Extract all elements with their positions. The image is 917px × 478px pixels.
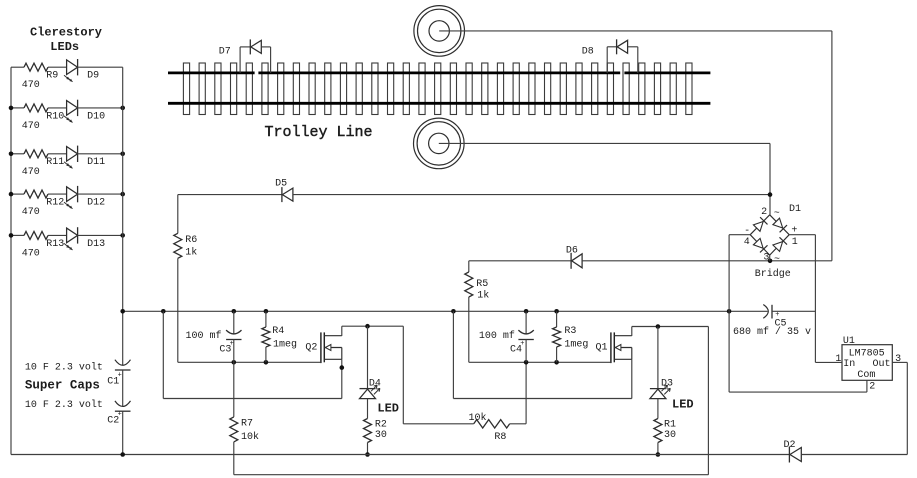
svg-text:1k: 1k	[185, 246, 197, 258]
svg-text:R9: R9	[46, 71, 58, 82]
svg-text:Out: Out	[873, 359, 891, 370]
svg-text:Super Caps: Super Caps	[25, 379, 100, 393]
svg-text:LEDs: LEDs	[50, 40, 79, 54]
svg-text:D3: D3	[661, 378, 673, 389]
svg-text:R4: R4	[272, 326, 284, 337]
svg-text:1: 1	[792, 237, 798, 248]
svg-text:U1: U1	[843, 336, 855, 347]
svg-text:470: 470	[22, 80, 40, 91]
svg-text:+: +	[230, 340, 234, 348]
svg-text:1: 1	[835, 354, 841, 365]
svg-text:470: 470	[22, 248, 40, 259]
svg-text:680 mf / 35 v: 680 mf / 35 v	[733, 326, 811, 338]
svg-text:R12: R12	[46, 198, 64, 209]
svg-text:R13: R13	[46, 239, 64, 250]
svg-text:Q1: Q1	[596, 342, 608, 353]
svg-text:R6: R6	[185, 235, 197, 246]
svg-text:R7: R7	[241, 419, 253, 430]
svg-text:30: 30	[664, 430, 676, 441]
svg-text:30: 30	[375, 430, 387, 441]
svg-text:~: ~	[774, 209, 780, 220]
svg-text:R2: R2	[375, 420, 387, 431]
svg-text:2: 2	[761, 207, 767, 218]
svg-text:+: +	[520, 340, 524, 348]
svg-text:10 F 2.3 volt: 10 F 2.3 volt	[25, 399, 103, 411]
svg-text:1meg: 1meg	[273, 340, 297, 351]
svg-text:R8: R8	[494, 432, 506, 443]
svg-text:4: 4	[744, 237, 750, 248]
svg-text:D8: D8	[582, 47, 594, 58]
svg-text:D13: D13	[87, 239, 105, 250]
svg-text:D10: D10	[87, 111, 105, 122]
svg-text:LM7805: LM7805	[849, 348, 885, 359]
svg-text:100 mf: 100 mf	[479, 330, 515, 342]
svg-text:In: In	[843, 359, 855, 370]
svg-text:D2: D2	[784, 440, 796, 451]
svg-text:470: 470	[22, 167, 40, 178]
svg-text:D4: D4	[369, 378, 381, 389]
svg-text:R3: R3	[564, 326, 576, 337]
svg-text:D7: D7	[219, 47, 231, 58]
svg-text:D5: D5	[275, 179, 287, 190]
svg-text:10k: 10k	[469, 412, 487, 424]
svg-text:D11: D11	[87, 157, 105, 168]
svg-text:470: 470	[22, 207, 40, 218]
svg-text:D9: D9	[87, 71, 99, 82]
svg-text:100 mf: 100 mf	[186, 330, 222, 342]
svg-text:D1: D1	[789, 204, 801, 215]
svg-text:3: 3	[895, 354, 901, 365]
svg-text:Clerestory: Clerestory	[30, 25, 102, 39]
svg-text:-: -	[744, 226, 750, 237]
svg-text:LED: LED	[377, 402, 399, 416]
svg-text:10k: 10k	[241, 431, 259, 443]
svg-text:470: 470	[22, 121, 40, 132]
svg-text:Trolley Line: Trolley Line	[265, 124, 373, 141]
svg-text:Q2: Q2	[305, 342, 317, 353]
svg-text:+: +	[118, 410, 122, 418]
svg-text:~: ~	[774, 254, 780, 265]
svg-text:Com: Com	[857, 370, 875, 381]
svg-text:2: 2	[869, 381, 875, 392]
svg-text:D12: D12	[87, 198, 105, 209]
svg-text:1meg: 1meg	[564, 340, 588, 351]
svg-text:LED: LED	[672, 398, 694, 412]
svg-text:R5: R5	[476, 279, 488, 290]
svg-text:R10: R10	[46, 111, 64, 122]
svg-text:R11: R11	[46, 157, 64, 168]
svg-text:D6: D6	[566, 245, 578, 256]
svg-text:3: 3	[763, 252, 769, 263]
svg-text:+: +	[118, 372, 122, 380]
svg-text:Bridge: Bridge	[755, 268, 791, 280]
svg-text:10 F 2.3 volt: 10 F 2.3 volt	[25, 362, 103, 374]
svg-text:R1: R1	[664, 420, 676, 431]
svg-text:1k: 1k	[477, 290, 489, 302]
